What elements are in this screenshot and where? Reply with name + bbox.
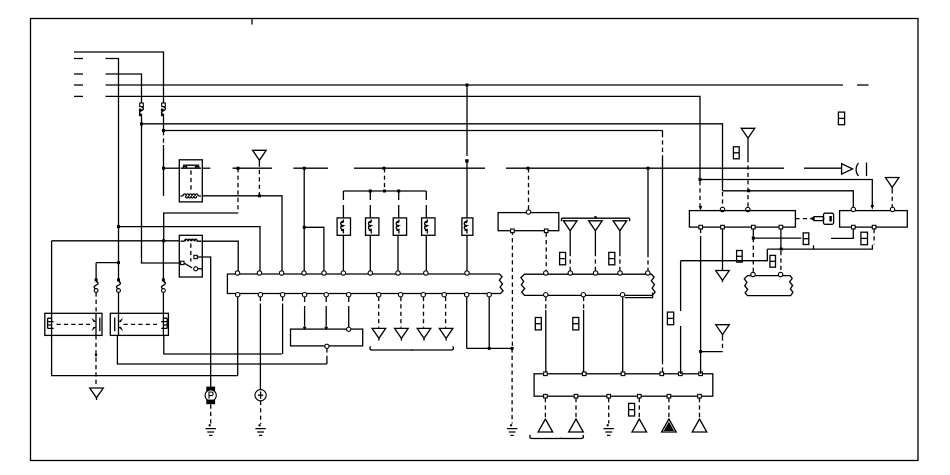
wires G11-G13 stems to C2	[570, 233, 620, 271]
key symbol	[795, 213, 833, 224]
wire C2 to ECU2 pin2	[583, 297, 585, 374]
wire K3 to C1 pin1 y375	[52, 335, 238, 375]
node vertical feed x467	[465, 85, 468, 218]
wire F3 to relay K3	[95, 292, 97, 313]
wire net y260	[681, 249, 768, 374]
wire C1 pin to K3 net (wire1)	[237, 297, 239, 376]
connector DS8	[560, 252, 566, 264]
ground triangle G8	[395, 328, 409, 340]
wire K4 right to C1 y354	[164, 335, 282, 354]
wire C2 to ECU2 pin3	[622, 297, 624, 374]
wire solenoid to connector C1	[466, 235, 468, 272]
wire INJ4 to C1	[425, 235, 427, 272]
fuse F5	[161, 241, 165, 292]
up ground triangle U4 (bold)	[662, 419, 677, 432]
wire box C pin to C2	[545, 233, 547, 271]
wire M2 to ground	[260, 401, 262, 424]
wire bus line 5	[74, 96, 700, 179]
C1 top pins	[235, 271, 469, 275]
wire module B pin x853 stub	[831, 229, 853, 239]
wire from F1 down to relay K1 area	[163, 118, 165, 196]
wire INJ1 to C1	[342, 235, 344, 272]
wire net y226	[117, 225, 260, 272]
connector DS12	[629, 403, 635, 416]
relay K1	[179, 160, 202, 202]
wire x700 bus to module A pin	[699, 181, 703, 211]
injector INJ4	[422, 218, 435, 235]
ground triangle G9	[417, 328, 431, 340]
connector B1	[291, 327, 363, 346]
wire module A pin x700 down to ECU2	[699, 229, 702, 374]
C2 bottom pins	[544, 293, 625, 297]
wire rail to C2 pin x648	[647, 168, 649, 271]
connector C3 (small wavy)	[744, 272, 793, 295]
wire rail y168 segment D	[293, 167, 328, 170]
earth ground E1	[206, 424, 216, 435]
wire module B pin x874 down	[873, 229, 875, 245]
fuse F2	[139, 103, 144, 118]
module A bottom pins	[699, 225, 783, 229]
wire rail y168 segment E	[354, 167, 485, 170]
wire C1 sensor grounds (4 dashed stems)	[379, 297, 446, 328]
wire injector drop 2	[369, 191, 371, 218]
wire G4 stem	[891, 189, 893, 207]
module A box	[689, 211, 795, 228]
motor M2 fuel pump	[255, 390, 266, 401]
wire F5 to relay K4	[162, 292, 164, 313]
connector DS7	[667, 312, 673, 325]
wire ECU2 pin1 to up-triangle	[544, 398, 546, 418]
wire C1 pins to sensor ground bus y348	[467, 297, 514, 350]
connector DS2	[838, 112, 844, 125]
wire C1 pins to B1 connector	[305, 297, 349, 327]
wire C2 bottom hook	[625, 293, 653, 298]
buzzer	[842, 163, 867, 177]
wire y179 to module B	[699, 178, 875, 210]
bracket under G7-G10	[370, 346, 454, 350]
earth ground E4	[604, 424, 614, 435]
wire y262 link	[96, 261, 120, 264]
connector DS11	[573, 318, 579, 330]
up ground triangle U2	[569, 419, 584, 432]
connector DS4	[770, 255, 776, 267]
wire C1 pin to K4 net (wire3)	[282, 297, 284, 354]
bracket under U1 U2	[530, 435, 584, 439]
wire B1 bottom pin to K4 net	[325, 344, 329, 364]
wire G1 stem to K1 coil line	[258, 163, 261, 198]
wire ECU2 pin2 to up-triangle	[575, 398, 577, 418]
ground triangle G13	[613, 221, 627, 233]
ground triangle G5b floating	[716, 325, 730, 337]
earth ground E3	[507, 424, 517, 435]
wire ECU2 pin4 to up-triangle	[638, 398, 640, 418]
injector feed rail	[343, 168, 426, 192]
wire net y213 jog	[164, 168, 239, 241]
C1 bottom pins	[236, 293, 492, 297]
wire ECU2 pin6 to up-triangle	[699, 398, 701, 418]
wire injector drop 4	[425, 191, 427, 218]
wire rail to box C pin	[528, 168, 530, 210]
wire x662 down to ECU	[662, 131, 664, 374]
connector DS6	[737, 251, 743, 263]
ground triangle G2	[741, 128, 755, 140]
ECU bottom box	[534, 374, 713, 396]
wire rail y168 segment C	[233, 167, 272, 170]
ground triangle G4	[885, 178, 899, 190]
wire bus line 3	[74, 74, 142, 103]
wire x304 rail-to-C1	[303, 168, 305, 272]
relay K4	[110, 313, 168, 335]
connector DS10	[535, 318, 541, 330]
shield bar over G-triangles	[562, 217, 630, 221]
connector DS3	[803, 233, 809, 245]
wire y190 to module B	[723, 189, 854, 207]
fuse F4	[117, 263, 121, 293]
module B box	[840, 211, 908, 228]
wire K1 switch out	[202, 167, 210, 169]
module B bottom pins	[852, 225, 876, 229]
wire K4 left to B1 y364	[117, 335, 327, 364]
wire injector drop 1	[342, 191, 344, 218]
up ground triangle U1	[538, 419, 553, 432]
ECU2 bottom pins	[544, 394, 702, 398]
wire INJ2 to C1	[369, 235, 371, 272]
wire injector drop 3	[398, 191, 400, 218]
wire branch y227	[303, 226, 324, 272]
up ground triangle U5	[692, 419, 707, 432]
wire K2 out to starter motor	[202, 257, 210, 387]
ground triangle G1	[253, 150, 267, 162]
ground triangle G10	[439, 328, 453, 340]
module B top pins	[851, 207, 895, 211]
wire G2 stem to module A pin	[746, 140, 750, 212]
wire net y249	[767, 245, 872, 251]
wire bus line 4	[74, 84, 869, 87]
wire from F2 down then right to relay K2 switch	[140, 118, 179, 263]
connector DS1	[733, 147, 739, 159]
connector C2 (ECU row 2)	[521, 274, 655, 295]
connector DS5	[861, 232, 868, 245]
C2 top pins	[544, 271, 650, 275]
motor M1	[205, 387, 216, 405]
wire x512 down to earth	[511, 348, 513, 423]
ground triangle G5	[716, 271, 730, 283]
wire K3 ground leg	[94, 335, 97, 387]
wire K2 coil out to C1	[202, 241, 238, 272]
wire box C bottom pin down x512	[511, 231, 513, 349]
wire module A pin x781 net	[780, 229, 782, 273]
wire bus line 1	[74, 52, 164, 103]
ground triangle G11	[563, 221, 577, 233]
fuse F3	[94, 263, 98, 293]
wire INJ3 to C1	[397, 235, 399, 272]
wire coil feed y241	[52, 239, 180, 313]
box C (relay block)	[498, 210, 559, 233]
connector C1 (ECU row 1)	[227, 274, 503, 294]
wire rail y168 segment F	[506, 167, 784, 170]
wire rail y130	[164, 130, 663, 132]
up ground triangle U3	[632, 419, 647, 432]
wire rail y124	[142, 124, 723, 191]
ECU2 top pins	[544, 372, 703, 376]
ground triangle G6	[90, 388, 104, 400]
wire C2 to ECU2 pin1	[545, 297, 547, 374]
wire C1 pin to fuel pump (wire2)	[259, 297, 261, 389]
wire G5b to x700 net	[701, 336, 723, 351]
injector INJ1	[337, 218, 350, 235]
wire ECU2 pin3 to earth	[608, 398, 610, 424]
wire rail y168 segment G to buzzer	[804, 167, 841, 169]
fuse F1	[161, 103, 166, 118]
wire M1 to ground	[210, 405, 212, 425]
wire x722 to module A pin	[720, 192, 724, 212]
wire module A pin x753 net	[752, 229, 802, 273]
connector DS9	[609, 252, 615, 264]
injector INJ3	[393, 218, 406, 235]
wire F4 to relay K4	[118, 292, 120, 313]
earth ground E2	[255, 424, 265, 435]
injector INJ2	[366, 218, 379, 235]
ground triangle G12	[589, 221, 603, 233]
solenoid coil box V5	[462, 218, 473, 235]
node rail y168 segment A	[162, 167, 179, 170]
wire ECU2 pin5 to up-triangle	[668, 398, 670, 418]
wire bus line 2	[74, 59, 119, 263]
ground triangle G7	[372, 328, 386, 340]
relay K3	[45, 313, 102, 335]
wire K1 coil out, down to connector C1	[202, 196, 282, 272]
relay K2	[179, 235, 202, 277]
wire module A pin x722 to ground triangle	[722, 229, 724, 271]
